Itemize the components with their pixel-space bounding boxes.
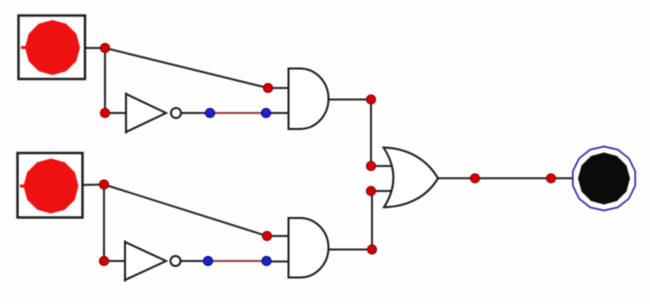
wire A stub from switch to node (84, 47, 105, 49)
wire NOT1 input stub (105, 112, 127, 114)
wire low-state segment NOT2 to AND2 (maroon) (208, 260, 267, 262)
wire B stub from switch to node (82, 184, 104, 187)
wire stub into AND1 upper input (268, 87, 289, 89)
input switch A box (19, 16, 86, 80)
wire A diagonal to AND1 top input (105, 48, 268, 88)
input switch A red lamp tick (21, 46, 28, 49)
input switch B red lamp (24, 159, 79, 214)
wire stub into AND2 upper input (267, 235, 289, 237)
node AND1 output (366, 95, 375, 104)
output lamp dark core (578, 153, 630, 205)
wire AND1 output (328, 99, 371, 101)
wire stub into AND1 lower input (266, 112, 289, 114)
wire OR output to lamp (438, 177, 573, 179)
input switch B box (18, 153, 83, 218)
node B at AND2 upper input (262, 231, 271, 240)
wire stub into OR input 1 (371, 165, 395, 167)
node A at AND1 upper input (263, 83, 272, 92)
node at AND1 lower input (blue) (261, 108, 270, 117)
node OR output (470, 174, 479, 183)
NOT gate U1 left edge (125, 93, 127, 134)
wire NOT2 input stub (104, 260, 126, 262)
AND gate U3 (289, 69, 329, 130)
node B at NOT2 input (99, 256, 108, 265)
wire low-state segment NOT1 to AND1 (maroon) (210, 112, 266, 114)
node A at NOT1 input (100, 108, 109, 117)
node AND2 output (367, 245, 376, 254)
NOT gate U1 bubble (171, 108, 181, 118)
wire stub into AND2 lower input (267, 261, 290, 263)
node B source junction (99, 180, 108, 189)
NOT gate U1 triangle (126, 94, 166, 132)
node OR input 1 (366, 161, 375, 170)
node OR input 2 (366, 186, 375, 195)
wire B vertical drop to NOT2 input (103, 185, 105, 262)
wire stub into OR input 2 (371, 190, 395, 192)
output lamp blue ring (573, 147, 635, 211)
node NOT2 output (blue) (203, 256, 212, 265)
node at AND2 lower input (blue) (262, 256, 271, 265)
NOT gate U2 bubble (171, 256, 181, 266)
AND gate U4 (289, 218, 329, 278)
wire NOT1 output to node (181, 112, 210, 114)
OR gate U5 (384, 148, 439, 208)
wire B diagonal to AND2 top input (104, 185, 267, 237)
input switch B red lamp tick (20, 185, 27, 188)
node A source junction (100, 43, 109, 52)
wire AND2 output (328, 249, 372, 251)
node lamp input (546, 174, 555, 183)
node NOT1 output (blue) (205, 108, 214, 117)
wire AND2 output rise to OR input 2 (371, 191, 373, 250)
wire NOT2 output to node (181, 260, 209, 262)
NOT gate U2 triangle (125, 242, 166, 280)
wire AND1 output drop to OR input 1 (370, 100, 372, 167)
wire A vertical drop to NOT1 input (104, 48, 106, 113)
input switch A red lamp (25, 20, 80, 75)
NOT gate U2 left edge (124, 241, 126, 282)
